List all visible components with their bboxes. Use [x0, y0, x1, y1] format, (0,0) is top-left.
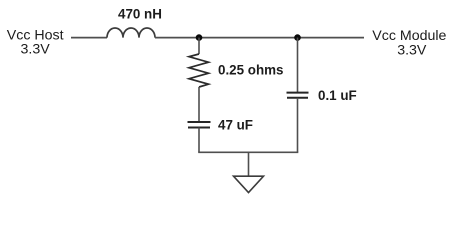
- wire node B down to capacitor C2: [297, 38, 299, 92]
- svg-text:0.1 uF: 0.1 uF: [318, 88, 357, 103]
- wire bottom rail to ground: [248, 152, 250, 176]
- svg-text:0.25 ohms: 0.25 ohms: [218, 63, 284, 78]
- svg-text:47 uF: 47 uF: [218, 118, 253, 133]
- wire from Vcc Host to inductor L1: [71, 37, 107, 39]
- wire node B to Vcc Module: [298, 37, 365, 39]
- svg-text:470 nH: 470 nH: [118, 7, 162, 22]
- bottom rail wire: [198, 151, 298, 153]
- svg-text:3.3V: 3.3V: [21, 42, 51, 58]
- wire inductor to node A: [155, 37, 199, 39]
- wire capacitor C1 to bottom rail: [198, 128, 200, 153]
- resistor R1 0.25 ohms: [189, 54, 209, 87]
- wire node A down to resistor R1: [198, 38, 200, 54]
- inductor L1 470 nH: [107, 28, 155, 38]
- ground symbol: [234, 176, 264, 192]
- node B junction dot: [294, 34, 301, 41]
- wire resistor R1 to capacitor C1: [198, 87, 200, 121]
- node A junction dot: [196, 34, 203, 41]
- svg-text:3.3V: 3.3V: [397, 43, 427, 59]
- wire capacitor C2 to bottom rail: [297, 98, 299, 153]
- capacitor C2 0.1 uF: [287, 93, 309, 98]
- wire node A to node B: [199, 37, 298, 39]
- capacitor C1 47 uF: [188, 122, 211, 128]
